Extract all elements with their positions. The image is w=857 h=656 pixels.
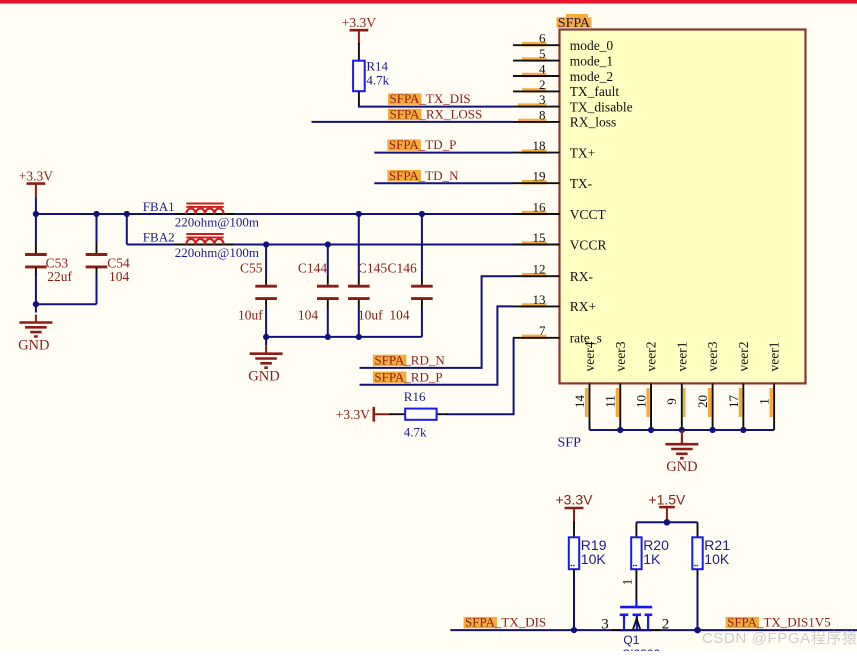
ferrite bead FBA2 FBA2 [143,230,259,260]
IC bottom pin 10 veer2 [633,342,658,430]
resistor R21 R21 10K [692,537,730,569]
svg-text:TX-: TX- [570,176,593,191]
svg-text:R16: R16 [404,389,426,404]
junction rail3 C145 [356,334,362,340]
power P3 +3.3V rotated [336,407,391,422]
wire R20 top lead [635,522,637,537]
wire GND stem IC [681,430,683,444]
svg-text:CSDN @FPGA程序猿: CSDN @FPGA程序猿 [702,630,857,647]
wire R21 bottom lead [697,569,699,577]
resistor R14 4.7k [353,58,390,91]
svg-text:4.7k: 4.7k [404,425,427,440]
svg-text:5: 5 [539,46,546,61]
svg-text:SFPA_TX_DIS: SFPA_TX_DIS [390,91,471,106]
svg-text:TX+: TX+ [570,145,596,160]
IC pin 3 TX_disable [513,92,633,114]
capacitor C145 [348,261,387,323]
svg-text:16: 16 [533,199,547,214]
junction rail1 C145 [356,211,362,217]
IC pin 2 TX_fault [513,77,619,99]
svg-text:FBA2: FBA2 [143,230,175,245]
svg-text:104: 104 [389,308,410,323]
svg-text:4.7k: 4.7k [366,73,389,88]
power P5 +1.5V [648,491,686,522]
svg-text:C55: C55 [240,261,263,276]
svg-text:SFPA_TX_DIS: SFPA_TX_DIS [465,615,546,630]
power P4 +3.3V bottom [556,491,594,522]
net label SFPA_RD_N [373,353,445,368]
ferrite bead FBA1 FBA1 [143,199,259,229]
svg-text:18: 18 [533,138,546,153]
ground GND-C55 [248,346,282,385]
net label SFPA_TD_P [387,137,456,152]
net label SFPA_TX_DIS1V5 [726,615,831,630]
IC pin 4 mode_2 [513,61,613,83]
IC pin 12 RX- [513,262,593,284]
svg-text:+3.3V: +3.3V [556,491,594,507]
svg-text:14: 14 [572,395,587,409]
IC pin 6 mode_0 [513,31,613,53]
IC bottom pin 11 veer3 [603,341,628,430]
IC pin 16 VCCT [513,199,606,221]
svg-text:RX+: RX+ [570,299,596,314]
junction +1.5V node [664,519,671,526]
svg-text:veer1: veer1 [767,342,782,372]
junction rail3 C144 [325,334,331,340]
junction rail1 a [33,211,39,217]
net label SFPA_RD_P [373,369,443,384]
IC bottom pin 9 veer1 [664,342,689,430]
svg-text:22uf: 22uf [47,269,72,284]
net label SFPA_TD_N [387,168,459,183]
wire C53 top lead [35,214,37,243]
wire rate_s down to R16 [447,338,514,414]
wire power to rail1 [35,198,37,214]
svg-text:SFPA_RD_N: SFPA_RD_N [374,353,445,368]
IC pin 7 rate_s [513,323,602,345]
svg-text:10K: 10K [581,551,607,567]
svg-text:SI2302: SI2302 [622,647,660,651]
capacitor C53 [25,255,72,285]
svg-text:veer4: veer4 [582,341,597,371]
svg-text:10K: 10K [704,551,730,567]
svg-text:VCCR: VCCR [570,237,607,252]
IC bottom pin 14 veer4 [572,341,597,430]
wire TX_DIS [359,105,513,107]
capacitor C55 [238,261,277,323]
wire C53-C54 bottom [36,303,97,305]
svg-text:VCCT: VCCT [570,207,607,222]
wire bottom rail TX_DIS [450,629,857,631]
wire C54 bottom lead [96,267,98,276]
svg-text:2: 2 [539,77,546,92]
svg-text:GND: GND [666,459,697,475]
wire rail1 VCCT [36,213,176,215]
svg-text:19: 19 [533,169,546,184]
svg-text:SFPA_RD_P: SFPA_RD_P [374,369,442,384]
capacitor C54 [86,255,130,285]
svg-text:+1.5V: +1.5V [648,491,686,507]
wire C144 top lead [327,245,329,277]
transistor Q1 SI2302 NMOS [620,600,661,656]
wire R16 left lead [390,413,406,415]
svg-text:veer3: veer3 [705,341,720,371]
svg-text:TX_disable: TX_disable [570,99,633,114]
wire cap bottom lead x327 [327,300,329,308]
wire C145 top lead [358,214,360,276]
wire cap bottom lead x358 [358,300,360,308]
junction bottom pin rail 2 [648,427,654,433]
wire R20-R21 top rail [636,521,697,523]
svg-text:1K: 1K [643,551,661,567]
wire cap bank bottom rail [266,336,422,338]
wire Q1 drain lead [652,629,661,631]
IC pin 8 RX_loss [513,107,616,129]
wire GND stem left [35,304,37,312]
wire cap bottom lead x266 [265,300,267,308]
svg-text:104: 104 [109,269,130,284]
resistor R19 R19 10K [569,537,607,569]
IC bottom pin 20 veer3 [695,341,720,430]
svg-text:10: 10 [633,395,648,408]
svg-text:C146: C146 [388,261,418,276]
junction bottom pin rail 4 [709,427,715,433]
top red border line [0,0,857,4]
junction rail3 C55 [263,334,269,340]
svg-text:10uf: 10uf [358,308,383,323]
junction bottom pin rail 1 [617,427,623,433]
wire rail1 drop to rail2 [126,214,128,245]
wire RX_LOSS [312,121,514,123]
svg-text:3: 3 [539,92,546,107]
svg-text:+3.3V: +3.3V [336,407,370,422]
wire R20 gate lead [635,569,637,600]
svg-text:C145: C145 [358,261,388,276]
wire TD_P [374,152,513,154]
net label SFPA_TX_DIS-bottom [464,615,547,630]
svg-text:1: 1 [620,579,635,586]
junction R19 bottom [571,627,577,633]
svg-text:mode_1: mode_1 [570,53,614,68]
IC designator SFPA [557,14,592,31]
junction R21 bottom [694,627,701,634]
svg-text:SFPA: SFPA [558,16,591,31]
svg-text:13: 13 [533,292,546,307]
svg-text:GND: GND [18,338,49,354]
svg-text:12: 12 [533,262,546,277]
svg-text:C144: C144 [298,261,328,276]
svg-text:veer3: veer3 [613,341,628,371]
svg-text:SFPA_TD_P: SFPA_TD_P [389,137,456,152]
junction rail1 C146 [419,211,425,217]
svg-text:RX-: RX- [570,269,594,284]
svg-text:+3.3V: +3.3V [19,168,53,183]
junction rail1 c [124,211,130,217]
svg-text:SFPA_TD_N: SFPA_TD_N [389,168,459,183]
IC bottom pin 1 veer1 [757,342,782,430]
svg-text:10uf: 10uf [238,308,263,323]
IC bottom pin 17 veer2 [726,342,751,430]
junction rail1 b [93,211,99,217]
svg-text:SFPA_RX_LOSS: SFPA_RX_LOSS [390,107,483,122]
svg-text:veer2: veer2 [736,342,751,372]
svg-text:FBA1: FBA1 [143,199,175,214]
power P2 +3.3V [342,15,376,45]
wire R19 top lead [573,521,575,537]
wire R14 bottom lead [358,91,360,106]
svg-text:104: 104 [298,308,319,323]
wire R16 right lead [437,413,448,415]
wire cap bottom lead x421 [421,300,423,308]
svg-text:220ohm@100m: 220ohm@100m [175,214,259,229]
resistor R20 R20 1K [631,537,669,569]
junction rail2 C55 [263,241,269,247]
svg-text:9: 9 [664,398,679,405]
net label SFPA_TX_DIS [388,91,471,106]
svg-text:SFPA_TX_DIS1V5: SFPA_TX_DIS1V5 [727,615,831,630]
svg-text:17: 17 [726,395,741,409]
capacitor C144 [298,261,339,323]
svg-text:R14: R14 [366,58,388,73]
svg-text:11: 11 [603,395,618,408]
wire C54 top lead [96,214,98,243]
svg-text:4: 4 [539,61,546,76]
ground GND-IC [665,436,698,475]
svg-text:GND: GND [248,369,279,385]
svg-text:+3.3V: +3.3V [342,15,376,30]
svg-text:15: 15 [533,230,546,245]
wire Q1 source lead [611,629,620,631]
svg-text:20: 20 [695,395,710,408]
junction bottom pin rail 3 [679,427,685,433]
svg-text:1: 1 [757,398,772,405]
wire R14 top lead [358,43,360,61]
svg-text:mode_0: mode_0 [570,38,614,53]
wire R19 bottom lead [573,569,575,577]
resistor R16 4.7k [404,389,437,439]
IC bottom ground rail wire [590,429,775,431]
wire RX+ to RD_P [360,306,514,384]
IC pin 19 TX- [513,169,593,191]
IC pin 13 RX+ [513,292,596,314]
svg-text:Q1: Q1 [623,633,639,647]
IC pin 5 mode_1 [513,46,613,68]
IC pin 18 TX+ [513,138,595,160]
svg-text:7: 7 [539,323,546,338]
IC U-SFPA body [560,30,806,384]
wire RX- to RD_N [360,276,514,368]
capacitor C146 [388,261,433,323]
wire rail2 VCCR [127,244,176,246]
wire C146 top lead [421,214,423,276]
svg-text:veer1: veer1 [674,342,689,372]
svg-text:6: 6 [539,31,546,46]
svg-text:mode_2: mode_2 [570,69,614,84]
ground GND-L [18,315,52,354]
net label SFPA_RX_LOSS [388,107,482,122]
svg-text:veer2: veer2 [644,342,659,372]
svg-text:TX_fault: TX_fault [570,84,620,99]
svg-text:SFP: SFP [558,436,582,451]
svg-text:220ohm@100m: 220ohm@100m [175,245,259,260]
svg-text:RX_loss: RX_loss [570,115,617,130]
wire GND stem C55 [265,337,267,346]
svg-text:8: 8 [539,107,546,122]
wire C55 top lead [265,245,267,277]
junction C53 bottom [33,301,39,307]
junction rail2 C144 [325,241,331,247]
wire R21 top lead [697,522,699,537]
power P1 +3.3V [19,168,53,198]
junction bottom pin rail 5 [740,427,746,433]
wire TD_N [374,182,513,184]
IC pin 15 VCCR [513,230,606,252]
wire C53 bottom lead [35,267,37,276]
